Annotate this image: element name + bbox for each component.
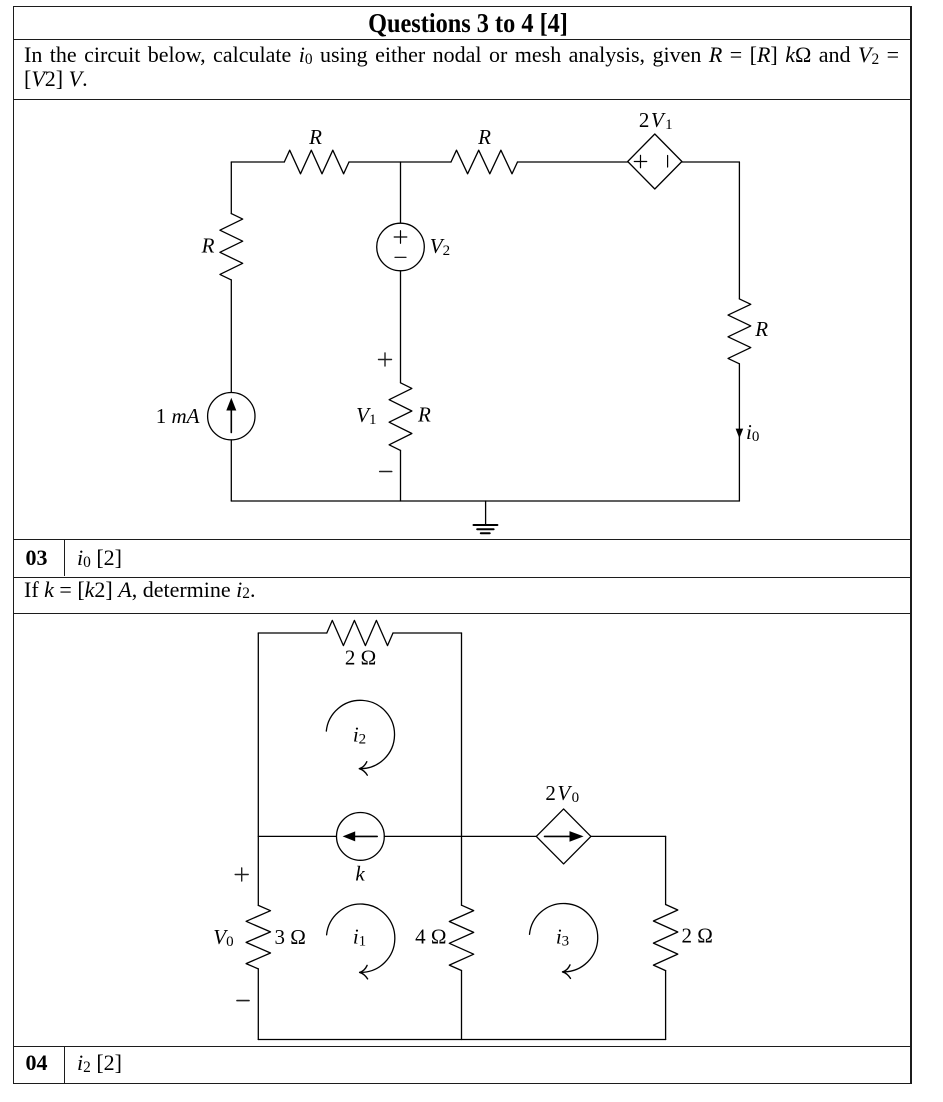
svg-text:R: R xyxy=(201,233,215,257)
svg-text:V2: V2 xyxy=(430,234,450,259)
svg-text:1 mA: 1 mA xyxy=(156,404,200,428)
svg-text:i1: i1 xyxy=(353,924,366,949)
svg-text:2V1: 2V1 xyxy=(639,108,674,133)
svg-text:R: R xyxy=(477,125,491,149)
svg-text:i0: i0 xyxy=(746,420,759,445)
svg-text:R: R xyxy=(417,403,431,427)
svg-text:V0: V0 xyxy=(213,925,233,950)
svg-text:i2: i2 xyxy=(353,723,366,748)
svg-text:4 Ω: 4 Ω xyxy=(415,924,446,948)
svg-text:2 Ω: 2 Ω xyxy=(682,924,713,948)
svg-text:2 Ω: 2 Ω xyxy=(345,646,376,670)
svg-text:R: R xyxy=(308,125,322,149)
svg-text:3 Ω: 3 Ω xyxy=(275,925,306,949)
svg-text:i3: i3 xyxy=(556,924,569,949)
svg-text:R: R xyxy=(754,317,768,341)
svg-text:2V0: 2V0 xyxy=(545,781,580,806)
svg-text:V1: V1 xyxy=(356,403,376,428)
svg-text:k: k xyxy=(355,861,365,885)
